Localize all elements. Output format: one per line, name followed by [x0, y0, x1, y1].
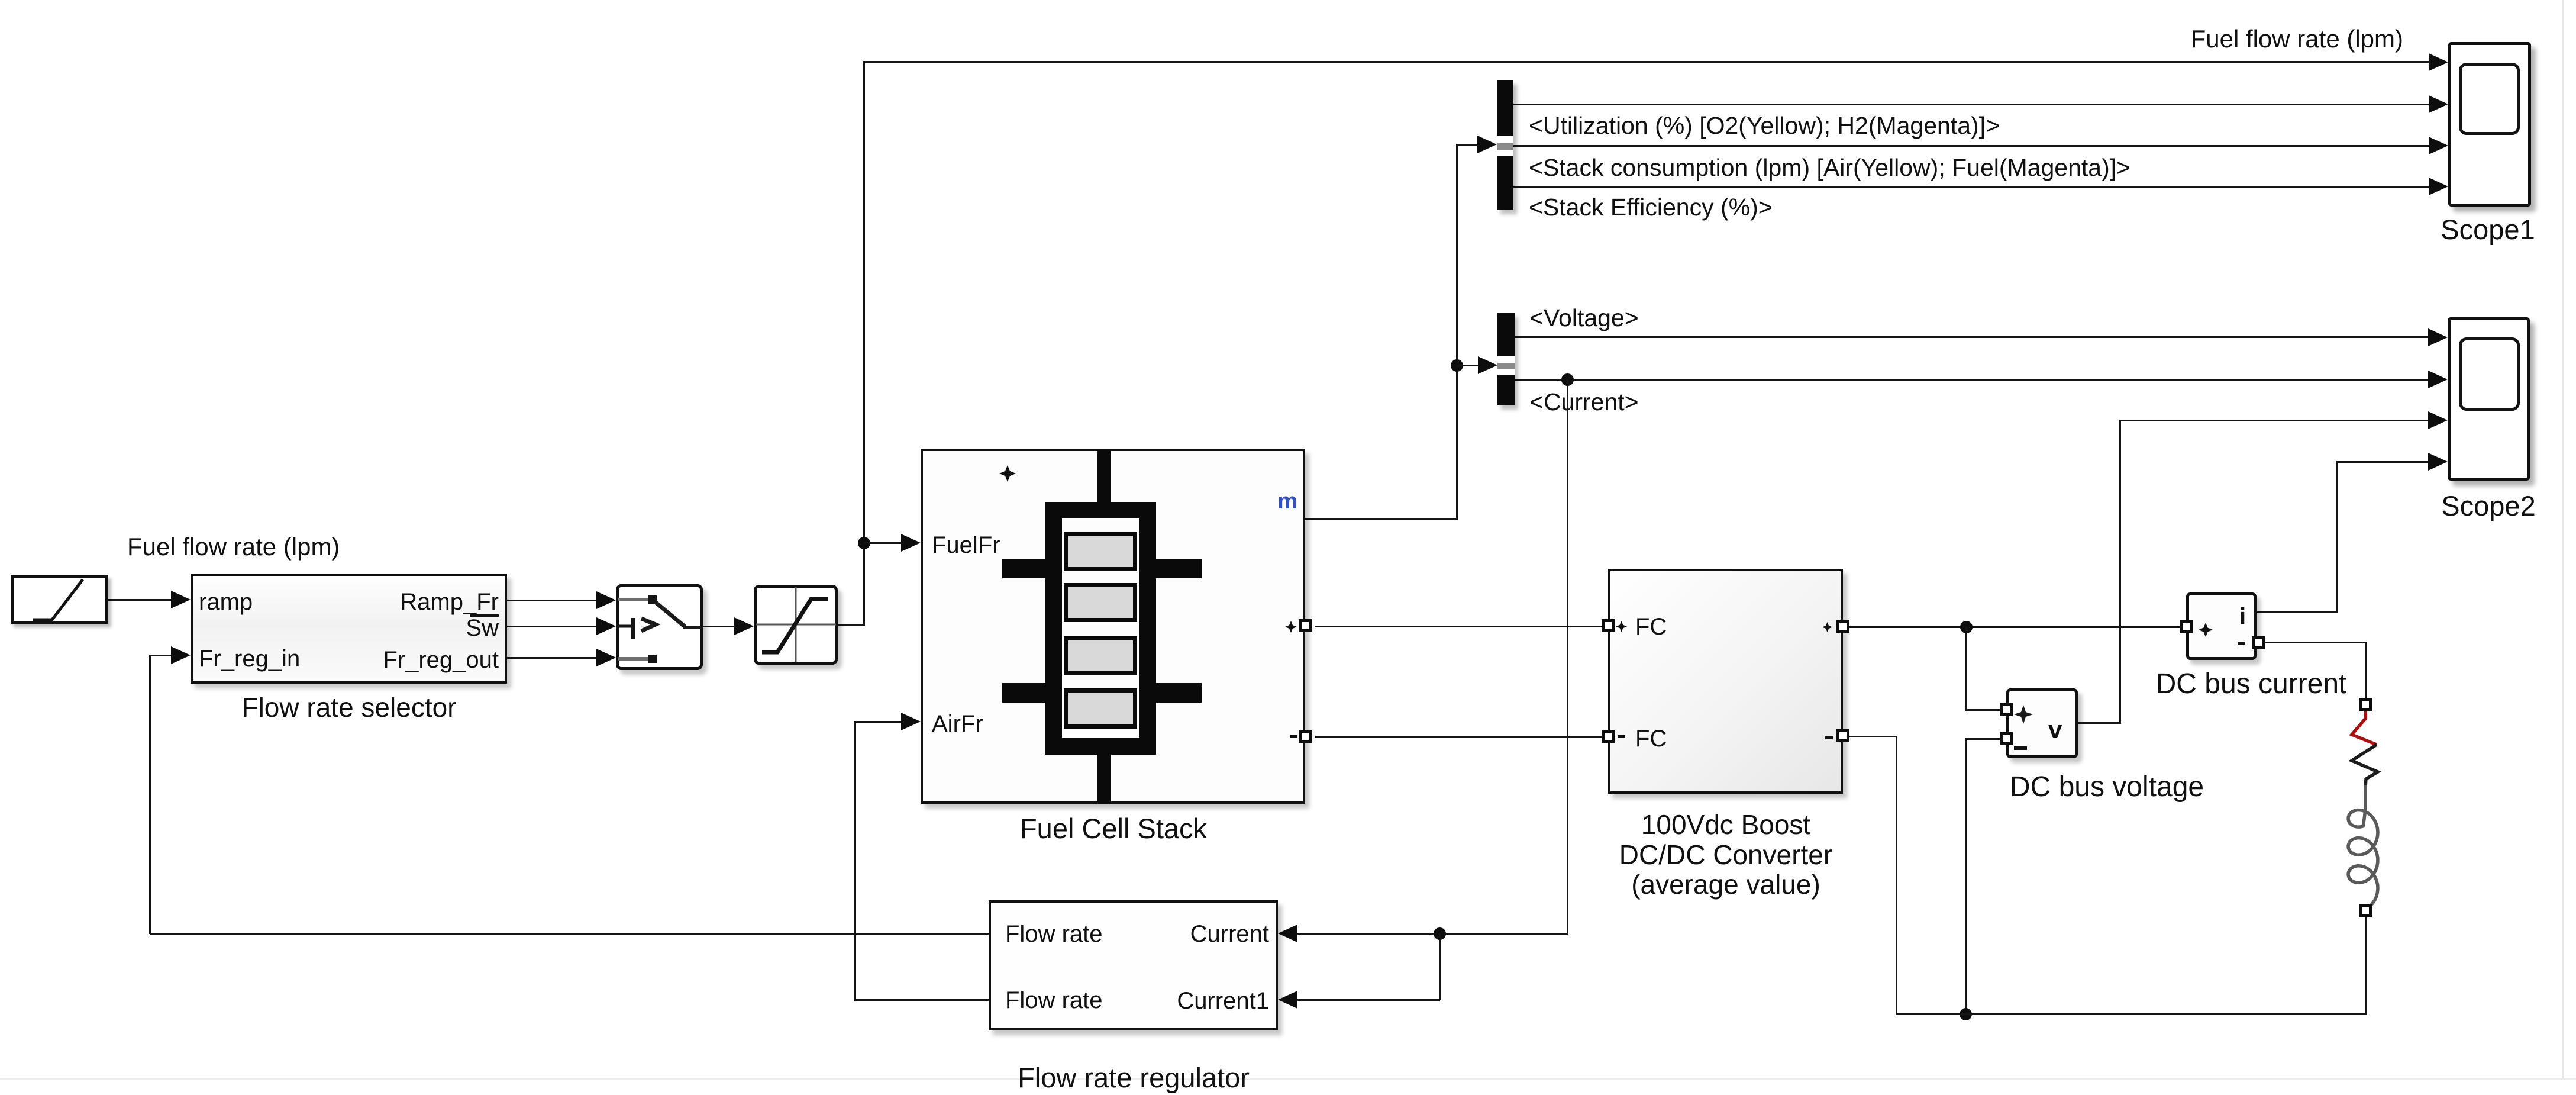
label: (average value) [1607, 871, 1844, 898]
port label: Current1 [1092, 989, 1269, 1013]
port square: RL branch bottom [2359, 904, 2372, 917]
wire: Ramp_Fr to switch input 1 [507, 600, 598, 601]
port label: Flow rate bottom [1005, 988, 1103, 1012]
fuel cell icon: cell 1 [1064, 532, 1137, 571]
saturation icon [754, 585, 838, 665]
port square: stack + [1299, 619, 1312, 632]
fuel cell icon: left tab lower [1002, 683, 1045, 703]
wire: DC bus current i output up to Scope2 input 4 [2257, 611, 2338, 613]
wire: DC bus voltage v output up to Scope2 input 3 [2078, 722, 2121, 724]
switch icon [616, 584, 703, 670]
node: junction on return bus [1960, 1008, 1972, 1020]
converter FC- dash [1618, 735, 1625, 738]
port label: m (blue) [1238, 490, 1297, 513]
measurement block DC bus voltage [2006, 688, 2078, 758]
fuel cell icon: body frame [1045, 502, 1156, 755]
wire: return bus up to RL load bottom port [2365, 917, 2367, 1015]
port square: stack - [1299, 730, 1312, 743]
wire: m output of Fuel Cell Stack to bus selectors [1305, 518, 1458, 520]
signal label: Current [1529, 390, 1639, 414]
signal label: Stack Efficiency [1529, 195, 1773, 220]
label: Scope1 [2370, 215, 2576, 243]
port square: RL branch top [2359, 698, 2372, 711]
port label: i [2239, 605, 2246, 629]
port square: converter FC+ [1602, 619, 1615, 632]
stack physical-signal diamond top-left [999, 465, 1016, 482]
wire: Current signal down to Flow rate regulator [1567, 379, 1568, 934]
node: junction m-signal to both bus selectors [1451, 359, 1463, 372]
subsystem Fuel Cell Stack [921, 449, 1305, 804]
wire: Scope1 input 1 arrow [2429, 53, 2448, 71]
port label: v [2048, 717, 2062, 742]
wire: regulator Flow rate output back to Fr_reg_in [150, 933, 989, 935]
stack - port dash [1290, 735, 1297, 738]
node: junction on Current signal [1561, 373, 1574, 386]
faint page boundary vertical [2562, 0, 2564, 1080]
scope Scope2 [2448, 317, 2530, 481]
subsystem Flow rate regulator [989, 900, 1278, 1030]
signal label: Utilization [1529, 114, 2000, 138]
wire: branch to FuelFr input of Fuel Cell Stack [864, 542, 902, 544]
wire: saturation output stub [838, 624, 865, 626]
series RLC load branch: inductor [2339, 785, 2393, 912]
wire: Utilization signal to Scope1 input 2 [1513, 104, 2429, 105]
port label: voltage - dash [2014, 746, 2027, 750]
wire: Voltage signal to Scope2 input 1 [1515, 336, 2429, 338]
wire: Stack Efficiency signal to Scope1 input 4 [1513, 186, 2429, 188]
signal label: Stack consumption [1529, 156, 2130, 180]
wire: converter - output down and along return bus [1849, 736, 1897, 737]
wire: branch down to DC bus voltage + [1965, 627, 1967, 710]
label: Flow rate regulator [1015, 1064, 1252, 1091]
label: Fuel Cell Stack [966, 814, 1261, 842]
fuel cell icon: right tab upper [1156, 559, 1202, 578]
fuel cell icon: cell 4 [1064, 688, 1137, 729]
series RLC load branch: resistor [2339, 708, 2393, 788]
port square: DC bus current - [2252, 636, 2265, 649]
DC bus current - dash [2238, 642, 2245, 645]
label: Fuel flow rate (lpm) near Scope1 [2167, 27, 2403, 51]
converter - output dash [1825, 736, 1833, 739]
wire: branch down to Current1 input [1439, 933, 1441, 1000]
wire: ramp source to Flow rate selector [108, 599, 172, 601]
label: DC bus voltage [1989, 773, 2225, 801]
port square: DC bus voltage + [2000, 703, 2013, 716]
port label: Fr_reg_out [321, 648, 499, 672]
port label: Flow rate top [1005, 922, 1103, 946]
measurement block DC bus current [2186, 592, 2257, 660]
converter FC+ diamond [1616, 621, 1627, 632]
port label: AirFr [932, 712, 983, 736]
wire: DC bus current - output to RL load top [2265, 642, 2366, 643]
port square: converter FC- [1602, 730, 1615, 743]
wire: Current signal to Scope2 input 2 [1515, 379, 2429, 381]
fuel cell icon: left tab upper [1002, 559, 1045, 578]
fuel cell icon: cell 3 [1064, 636, 1137, 675]
port label: Sw overline [470, 614, 499, 617]
wire: into Bus Selector 2 [1457, 365, 1479, 366]
switch block [616, 584, 703, 670]
subsystem Flow rate selector [191, 574, 507, 684]
wire: DC bus voltage - down to return bus [1965, 738, 2001, 740]
label: 100Vdc Boost [1607, 811, 1844, 838]
signal label: Voltage [1529, 306, 1639, 330]
wire: converter + output bus to DC bus current [1849, 626, 2181, 628]
fuel cell icon: top stem [1097, 450, 1111, 504]
wire: Fuel Cell Stack - to converter FC- [1315, 736, 1605, 738]
saturation block [754, 585, 838, 665]
label: DC bus current [2133, 670, 2370, 698]
port label: FuelFr [932, 533, 1000, 557]
stack + port diamond [1285, 621, 1297, 633]
port label: voltage + diamond [2014, 705, 2033, 724]
port square: DC bus voltage - [2000, 732, 2013, 745]
port label: Ramp_Fr [321, 590, 499, 614]
port label: Sw [321, 616, 499, 640]
scope Scope1 [2448, 42, 2531, 207]
fuel cell icon: bottom stem [1097, 755, 1111, 803]
label: DC/DC Converter [1607, 841, 1844, 868]
DC bus current + diamond [2199, 623, 2213, 637]
subsystem 100Vdc Boost DC/DC Converter [1608, 569, 1843, 794]
ramp source block [11, 575, 108, 624]
faint page boundary horizontal [0, 1078, 2576, 1080]
fuel cell icon: cell 2 [1064, 583, 1137, 622]
wire: Fr_reg_out to switch input 3 [507, 657, 598, 659]
port square: DC bus current + [2180, 620, 2193, 633]
port label: Current [1092, 922, 1269, 946]
node: junction DC+ bus / voltage measure branch [1960, 621, 1973, 633]
fuel cell icon: right tab lower [1156, 683, 1202, 703]
port label: converter FC top [1635, 615, 1667, 639]
bus selector 2 [1497, 313, 1515, 405]
ramp icon [11, 575, 108, 624]
wire: Stack consumption signal to Scope1 input 3 [1513, 145, 2429, 147]
wire: Fuel Cell Stack + to converter FC+ [1315, 626, 1605, 627]
bus selector 1 [1497, 80, 1513, 210]
port square: converter + output [1836, 620, 1849, 633]
port label: ramp [199, 590, 253, 614]
label: Flow rate selector [201, 694, 497, 721]
node: junction Current/Current1 split [1434, 927, 1446, 940]
label: Fuel flow rate (lpm) near ramp [127, 534, 340, 559]
wire: saturation output up to top and across to Scope1 input 1 [864, 61, 2429, 63]
port label: Fr_reg_in [199, 647, 300, 671]
Scope1 screen [2459, 63, 2520, 135]
converter + output diamond [1822, 622, 1832, 632]
label: Scope2 [2370, 492, 2576, 520]
node: junction saturation-output / FuelFr branch [858, 537, 870, 549]
wire: Sw to switch input 2 [507, 626, 598, 627]
port label: converter FC bottom [1635, 727, 1667, 751]
port square: converter - output [1836, 729, 1849, 742]
wire: into Bus Selector 1 [1457, 144, 1479, 146]
Scope2 screen [2459, 337, 2520, 411]
wire: regulator Flow rate output to AirFr [854, 999, 989, 1001]
wire: switch output to saturation [703, 626, 735, 627]
